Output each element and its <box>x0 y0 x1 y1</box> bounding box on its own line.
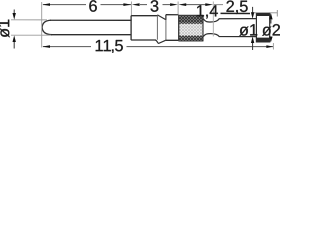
dim 3 right arrow <box>170 3 178 6</box>
flange bottom edge <box>166 39 179 41</box>
dim 6 right arrow <box>123 3 131 6</box>
rod shank top edge <box>50 19 132 21</box>
dim 11,5 left arrow <box>42 45 50 48</box>
rod shank bottom edge <box>51 34 131 36</box>
dim 6 left arrow <box>42 3 50 6</box>
bottom dip curve <box>155 40 166 43</box>
dim 2,5 line right thin <box>253 12 257 14</box>
flange/knurl boundary vertical <box>177 15 179 41</box>
dim 2,5 line under text <box>221 12 251 14</box>
dim 1,4 left arrow <box>178 3 186 6</box>
dim 3 line <box>140 4 147 6</box>
groove vertical left <box>156 15 158 40</box>
extension line at flange x178.1 <box>177 2 179 15</box>
dim o2 right text <box>262 24 280 36</box>
dim o1 left: lower arrow <box>13 42 15 49</box>
collar top edge <box>131 15 157 17</box>
dim 1,4 line <box>186 4 206 6</box>
dim o1 left: extension lines <box>11 19 47 21</box>
neck groove top (dip) + neck top edge <box>203 19 256 22</box>
dim 3 left arrow <box>132 3 140 6</box>
groove top diagonal <box>157 15 165 20</box>
knurl block <box>179 15 203 41</box>
dim 11,5 right tick <box>272 43 274 49</box>
knurl right face <box>202 15 204 41</box>
dim 11,5 right arrow <box>266 45 273 48</box>
dim 11,5 line <box>43 46 91 48</box>
head bottom band <box>256 38 269 43</box>
dim 11,5 text <box>96 40 123 53</box>
dim o2 right: vertical line + arrows <box>269 13 272 19</box>
extension line at collar x131.4 <box>130 1 132 14</box>
dim 6 text <box>89 0 97 12</box>
collar left face <box>130 16 132 40</box>
knurl bottom dark band <box>179 36 203 41</box>
neck groove bottom (bump) + neck bottom edge <box>203 34 256 37</box>
bullet tip <box>42 20 52 34</box>
groove vertical right <box>165 15 167 41</box>
dim 2,5 text <box>226 0 247 13</box>
dim o1 right: vertical line + arrows <box>252 7 254 13</box>
extension line at neck x213.3 <box>212 2 214 37</box>
dim o1 left: rotated text <box>0 20 10 38</box>
knurl top dark band <box>179 15 203 23</box>
flange top edge <box>166 14 179 16</box>
dim o1 right text <box>239 24 257 36</box>
dim 1,4 text <box>197 5 218 18</box>
dim 2,5 left stub <box>214 4 223 6</box>
head top band <box>256 13 269 16</box>
extension line at pin tip x41.7 <box>41 2 43 48</box>
dim 6 line <box>43 4 86 6</box>
collar bottom edge <box>131 39 156 41</box>
dim 3 text <box>151 0 159 12</box>
head left face <box>255 13 257 43</box>
dim 1,4 right arrow <box>205 3 213 6</box>
dim 2,5 right tick <box>276 10 278 17</box>
knurl middle lightening <box>179 24 202 36</box>
head right face <box>269 13 271 43</box>
dim o1 left: upper arrow <box>13 9 15 13</box>
